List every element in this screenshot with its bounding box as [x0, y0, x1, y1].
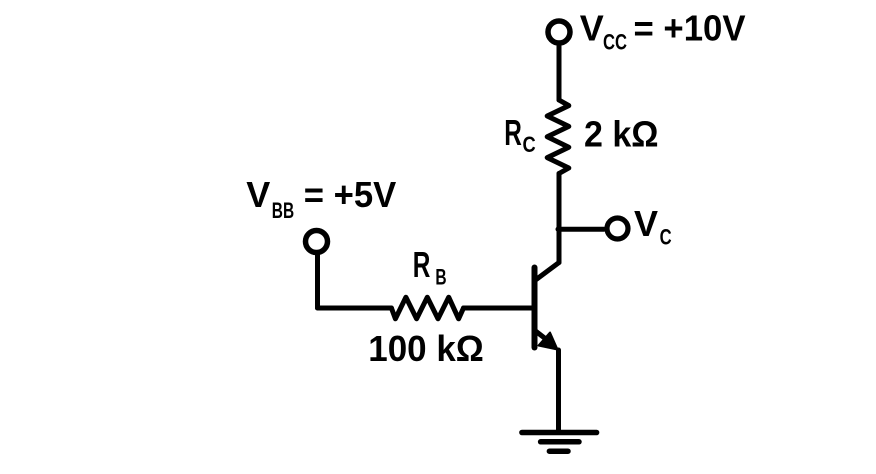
svg-text:R: R: [413, 244, 431, 285]
wire emitter to ground: [556, 350, 561, 433]
ground: [522, 433, 597, 452]
transistor Q1: [535, 263, 560, 350]
wire RB to base: [464, 306, 535, 311]
wire base: [318, 306, 392, 311]
label VC: [634, 203, 672, 249]
wire RC to collector: [557, 174, 562, 263]
svg-text:B: B: [435, 264, 446, 289]
svg-text:V: V: [634, 203, 658, 244]
resistor RB: [391, 297, 463, 319]
terminal VBB: [306, 231, 328, 253]
svg-text:C: C: [523, 132, 536, 157]
label VBB = +5V: [246, 174, 396, 223]
resistor RC: [547, 100, 569, 174]
label RB: [413, 244, 447, 289]
label VCC = +10V: [580, 7, 746, 54]
wire VCC to RC: [557, 46, 562, 100]
terminal VCC: [548, 21, 570, 43]
svg-text:V: V: [580, 7, 604, 48]
svg-text:R: R: [504, 112, 522, 153]
wire node VC: [558, 227, 604, 232]
svg-text:2 kΩ: 2 kΩ: [584, 113, 659, 154]
svg-text:C: C: [660, 224, 672, 249]
wire VBB down: [315, 255, 320, 308]
svg-text:= +10V: = +10V: [634, 7, 746, 48]
terminal VC: [607, 218, 628, 239]
svg-text:V: V: [246, 174, 270, 215]
svg-text:100 kΩ: 100 kΩ: [368, 328, 484, 369]
svg-text:= +5V: = +5V: [304, 174, 397, 215]
label RC: [504, 112, 535, 157]
svg-text:BB: BB: [272, 198, 294, 223]
svg-text:CC: CC: [603, 30, 627, 55]
